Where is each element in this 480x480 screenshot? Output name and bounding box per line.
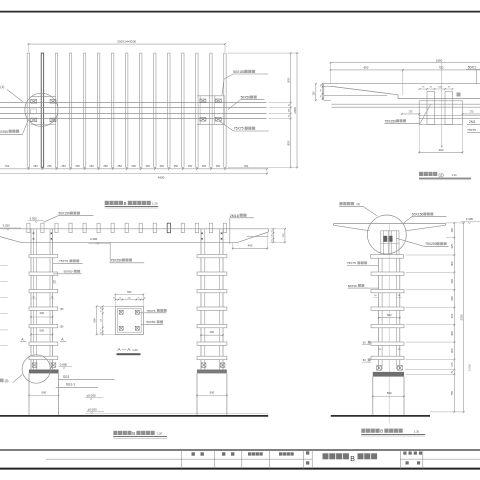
svg-text:B: B	[350, 456, 355, 463]
front beam left taper (cut at page edge)	[0, 237, 21, 243]
svg-text:(3): (3)	[5, 379, 9, 383]
svg-text:B: B	[132, 431, 135, 436]
svg-text:0.800: 0.800	[467, 364, 471, 371]
svg-text:B: B	[380, 429, 383, 434]
title block vertical separators	[181, 450, 183, 469]
svg-text:250X14=3500: 250X14=3500	[117, 40, 136, 44]
side base bolts	[377, 366, 382, 371]
svg-text:250: 250	[75, 164, 80, 168]
plan right joint column edge lines	[199, 96, 201, 125]
front bolt dots on beam	[33, 233, 35, 235]
title block cell zhi tu	[222, 452, 225, 455]
plan bottom total dimension 4900	[0, 173, 267, 175]
svg-text:600: 600	[364, 66, 369, 70]
svg-text:175: 175	[408, 110, 413, 113]
side column verticals	[378, 258, 380, 369]
side column rungs	[371, 272, 404, 275]
section A-A corner battens 50X50	[119, 310, 123, 314]
title block mid line	[46, 458, 312, 460]
svg-text:500: 500	[40, 329, 45, 333]
title block cell gong cheng zong cheng	[403, 452, 406, 455]
svg-text:250: 250	[202, 164, 207, 168]
svg-text:1:10: 1:10	[452, 173, 458, 177]
plan slat 8 (50X150)	[125, 53, 127, 167]
svg-text:500: 500	[387, 391, 392, 395]
front column bottom rung	[29, 356, 58, 359]
title block cell xiang mu	[406, 461, 409, 464]
svg-text:250: 250	[33, 164, 38, 168]
plan slat 2 (50X150)	[41, 53, 43, 167]
svg-text:250: 250	[103, 164, 108, 168]
front left dim extension stubs	[0, 265, 8, 267]
svg-text:1:20: 1:20	[152, 202, 158, 206]
title block bottom border	[0, 468, 480, 470]
svg-text:75X250: 75X250	[385, 119, 397, 123]
svg-text:250: 250	[160, 164, 165, 168]
side cap band	[371, 255, 404, 259]
front left column verticals	[30, 229, 32, 369]
svg-text:70: 70	[320, 89, 322, 91]
svg-text:3.300: 3.300	[30, 216, 38, 220]
section A-A left dim 50 75 250 75 50	[102, 306, 104, 334]
svg-text:4900: 4900	[158, 176, 165, 180]
svg-text:50X1: 50X1	[468, 65, 476, 69]
svg-text:2600: 2600	[293, 107, 297, 114]
svg-text:X250: X250	[0, 130, 8, 134]
svg-text:3.300: 3.300	[90, 237, 98, 241]
svg-text:300: 300	[450, 261, 454, 266]
side label to detail 2	[339, 202, 342, 205]
svg-text:150: 150	[450, 227, 454, 232]
front ground line	[0, 415, 268, 417]
side total dim 3350	[463, 223, 465, 412]
svg-text:250: 250	[216, 164, 221, 168]
svg-text:175: 175	[469, 110, 474, 113]
svg-text:50X150: 50X150	[412, 213, 424, 217]
svg-text:400: 400	[40, 311, 45, 315]
svg-text:250: 250	[117, 164, 122, 168]
svg-text:250: 250	[101, 319, 103, 322]
svg-text:250: 250	[128, 297, 131, 299]
svg-text:75X250: 75X250	[425, 242, 437, 246]
svg-text:1950: 1950	[436, 58, 443, 62]
svg-text:700: 700	[5, 164, 10, 168]
svg-text:1:20: 1:20	[132, 348, 138, 352]
svg-text:500: 500	[127, 290, 132, 294]
section A-A top dim 50 75 250 75 50	[115, 299, 143, 301]
svg-text:50: 50	[113, 297, 115, 299]
svg-text:300: 300	[450, 313, 454, 318]
plan left joint cap lines	[31, 96, 56, 98]
detail sub-beam 75 right	[445, 92, 453, 125]
side base plate hatched	[373, 372, 404, 377]
svg-text:50X50: 50X50	[348, 284, 357, 288]
front beam right taper tail	[238, 232, 268, 242]
plan slat 12 (50X150)	[182, 53, 184, 167]
detail sub-beam 75 left	[427, 92, 435, 125]
plan view: top dimension 250X14=3500	[28, 43, 225, 45]
svg-text:300: 300	[450, 348, 454, 353]
svg-text:250: 250	[174, 164, 179, 168]
svg-text:50X50: 50X50	[146, 320, 155, 324]
plan slat 10 (50X150)	[154, 53, 156, 167]
detail dim 175 right	[463, 113, 480, 115]
svg-text:850: 850	[286, 140, 290, 145]
svg-text:±0.000: ±0.000	[87, 393, 96, 397]
detail dim 600 / 750	[331, 69, 480, 71]
plan slat 3 (50X150)	[55, 53, 57, 167]
plan bottom dimension row 250s	[0, 168, 267, 170]
svg-text:50: 50	[320, 95, 322, 97]
side dim extension stubs	[445, 222, 465, 224]
section A-A left total 500	[96, 306, 98, 334]
svg-text:400: 400	[439, 148, 444, 152]
plan view title	[105, 201, 109, 205]
svg-text:750: 750	[450, 390, 454, 395]
plan slat 5 (50X150)	[83, 53, 85, 167]
detail beam 50X150 profile	[324, 83, 480, 85]
svg-text:50X50: 50X50	[64, 270, 73, 274]
svg-text:50: 50	[271, 230, 273, 232]
svg-text:75: 75	[138, 297, 140, 299]
plan slat 9 (50X150)	[140, 53, 142, 167]
svg-text:(1): (1)	[0, 85, 4, 89]
front beam bottom edge	[21, 241, 239, 243]
plan slat 13 (50X150)	[196, 53, 198, 167]
title block cell tu ming vertical	[306, 451, 309, 454]
svg-text:175: 175	[450, 362, 454, 367]
front pedestals	[28, 373, 30, 415]
svg-text:50X150: 50X150	[233, 70, 245, 74]
front base detail circle 3	[22, 355, 50, 383]
plan slat 15 (50X150)	[224, 53, 226, 167]
svg-text:250: 250	[47, 164, 52, 168]
svg-text:425: 425	[450, 244, 454, 249]
side wings top edge	[334, 222, 446, 224]
svg-text:300: 300	[450, 296, 454, 301]
title block top border	[0, 449, 480, 451]
side column center line	[388, 224, 390, 424]
svg-text:75X75: 75X75	[59, 259, 68, 263]
svg-text:150: 150	[271, 234, 273, 237]
svg-text:(2): (2)	[357, 202, 361, 206]
title block cell she ji zhuan ye	[279, 452, 282, 455]
side joint bolt blocks	[383, 236, 387, 242]
svg-text:250: 250	[132, 164, 137, 168]
plan left joint bolts 2M18	[31, 100, 37, 104]
plan slat 7 (50X150)	[111, 53, 113, 167]
section A-A outer square	[115, 306, 143, 334]
plan slat 6 (50X150)	[97, 53, 99, 167]
svg-text:50: 50	[101, 332, 103, 334]
front label detail 3 (cut)	[0, 379, 4, 383]
svg-text:75: 75	[101, 329, 103, 331]
svg-text:400: 400	[248, 244, 253, 248]
svg-text:750: 750	[439, 66, 444, 70]
front elevation slat end squares	[27, 223, 30, 233]
title block cell chu tu ri qi	[248, 452, 251, 455]
svg-text:50: 50	[271, 240, 273, 242]
svg-text:3350: 3350	[459, 314, 463, 321]
plan beam 75X250 upper (double line)	[0, 102, 267, 104]
svg-text:0.800: 0.800	[60, 362, 68, 366]
svg-text:75X250: 75X250	[111, 259, 123, 263]
side wing left underside	[334, 225, 370, 231]
svg-text:250: 250	[89, 164, 94, 168]
plan slat 14 (50X150)	[210, 53, 212, 167]
detail joint block	[419, 101, 462, 125]
svg-text:75: 75	[101, 310, 103, 312]
svg-text:75: 75	[119, 297, 121, 299]
detail dim 1950	[331, 62, 480, 64]
plan left joint blocking rect	[31, 109, 37, 114]
plan detail circle 1	[25, 93, 58, 126]
page top border	[0, 11, 480, 13]
svg-text:50: 50	[144, 297, 146, 299]
section A-A inner square	[118, 309, 142, 333]
svg-text:1:20: 1:20	[157, 432, 163, 436]
plan slat 4 (50X150)	[69, 53, 71, 167]
side detail circle 2	[367, 215, 406, 254]
svg-text:SG1: SG1	[63, 375, 70, 379]
svg-text:30: 30	[320, 85, 322, 87]
svg-text:2M18: 2M18	[230, 214, 239, 218]
plan beam 75X250 lower (double line)	[0, 113, 267, 115]
side wing right underside	[406, 225, 446, 231]
title block cell she ji	[192, 452, 195, 455]
plan right dimension slat length 2600	[290, 53, 292, 167]
detail dim 175 left	[402, 113, 420, 115]
svg-text:250: 250	[146, 164, 151, 168]
front beam top edge	[0, 228, 268, 230]
svg-text:75X75: 75X75	[146, 309, 155, 313]
svg-text:75X75: 75X75	[234, 127, 244, 131]
front dim 400 (tail)	[232, 243, 234, 249]
svg-text:50X50: 50X50	[241, 95, 251, 99]
svg-text:300: 300	[450, 331, 454, 336]
svg-text:75X75: 75X75	[467, 128, 476, 132]
svg-text:500: 500	[210, 390, 215, 394]
front column rungs 75X75	[29, 255, 58, 258]
plan right joint bolts 2M18	[200, 99, 206, 103]
side elevation title	[361, 429, 365, 433]
svg-text:250: 250	[61, 164, 66, 168]
title block drawing name	[323, 453, 329, 459]
front base bolts	[32, 363, 37, 367]
section A-A top dim 500	[115, 293, 143, 295]
svg-text:50: 50	[101, 307, 103, 309]
front base plates hatched	[29, 370, 59, 374]
plan right joint cap lines	[197, 95, 225, 97]
svg-text:700: 700	[244, 164, 249, 168]
detail 75X75 rails lower pair	[419, 115, 480, 117]
svg-text:50X150: 50X150	[58, 212, 70, 216]
svg-text:A — A: A — A	[118, 347, 132, 352]
side ground line	[331, 415, 430, 417]
svg-text:500: 500	[41, 390, 46, 394]
svg-text:B: B	[124, 201, 127, 206]
svg-text:150: 150	[313, 91, 316, 96]
detail 75X75 rails upper pair	[332, 103, 480, 105]
front ground level thin line	[85, 412, 268, 414]
detail column center line	[441, 63, 443, 147]
svg-text:75X75: 75X75	[347, 261, 356, 265]
svg-text:400: 400	[210, 330, 215, 334]
svg-text:1:20: 1:20	[414, 429, 420, 433]
side right dims	[453, 223, 455, 412]
side pedestal	[372, 377, 374, 416]
plan dim extension stubs right	[228, 52, 299, 54]
plan slat 11 (50X150)	[168, 53, 170, 167]
detail title	[419, 172, 423, 176]
side joint verticals	[380, 231, 382, 255]
svg-text:±0.000: ±0.000	[88, 407, 97, 411]
svg-text:850: 850	[286, 77, 290, 82]
detail dim 400	[418, 125, 420, 154]
detail dim 75 75 100 75	[420, 88, 453, 90]
svg-text:3.300: 3.300	[466, 217, 474, 221]
front tail height dims 50 150 50 / 250	[272, 229, 274, 243]
svg-text:500: 500	[92, 318, 96, 323]
detail left height dims 150 30 70 50	[315, 84, 317, 101]
front right column verticals	[200, 229, 202, 369]
plan slat 1 (50X150)	[27, 53, 29, 167]
svg-text:(2): (2)	[439, 172, 445, 177]
svg-text:300: 300	[450, 278, 454, 283]
svg-text:250: 250	[188, 164, 193, 168]
svg-text:500: 500	[387, 313, 392, 317]
front elevation title	[113, 431, 117, 435]
svg-text:2M1: 2M1	[469, 120, 476, 124]
svg-text:SG1-1: SG1-1	[66, 383, 75, 387]
svg-text:3.250: 3.250	[3, 223, 11, 227]
